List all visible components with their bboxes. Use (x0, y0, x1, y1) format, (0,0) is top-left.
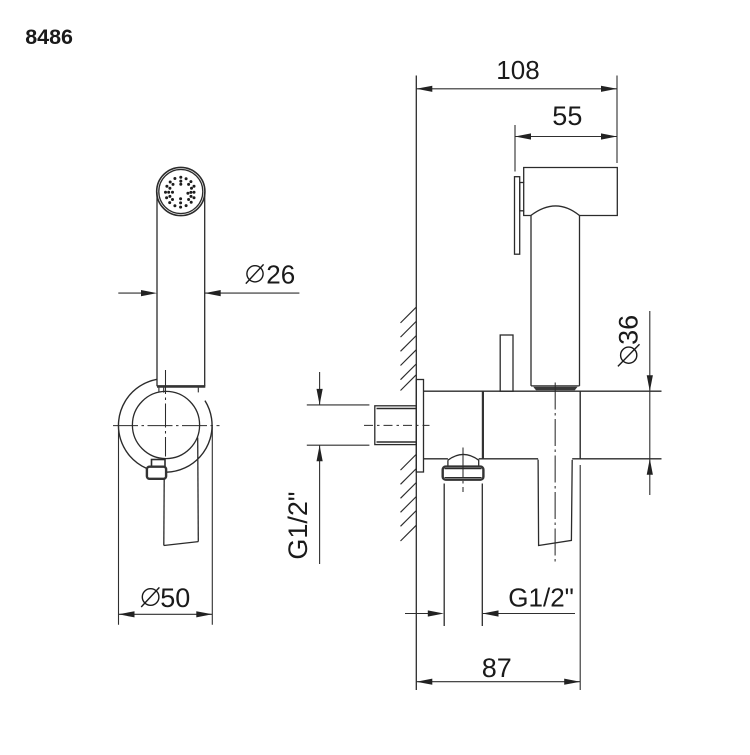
dimension 55 arrows (515, 133, 617, 139)
neck tick left a (158, 388, 160, 392)
dimension D26 label (246, 264, 264, 283)
handle right edge (side view) (579, 216, 581, 386)
dimension G12 left arrows (317, 389, 323, 461)
handle rim band (side view) (533, 387, 577, 391)
lower handle piece right edge (197, 438, 200, 542)
holder vertical centerline (165, 370, 167, 457)
dimension G12 left upper line (319, 372, 321, 405)
dimension 55 left extension line (514, 125, 516, 172)
dimension 108 line (416, 88, 617, 90)
dimension D50 arrows (119, 611, 213, 617)
spray face outer circle (157, 167, 205, 215)
dimension 87 right extension line (579, 465, 581, 690)
svg-text:26: 26 (266, 260, 295, 290)
dimension 55 line (515, 136, 617, 138)
dimension G12 bottom arrows (428, 610, 499, 616)
dimension 87 line (416, 681, 580, 683)
supply pipe centerline (364, 424, 430, 426)
outlet nut (443, 467, 484, 480)
svg-text:36: 36 (614, 315, 644, 345)
dimension D36 arrows (647, 375, 653, 475)
holder body top edge (424, 390, 662, 392)
spray nozzle dots (164, 176, 196, 209)
dimension D26 arrows (141, 290, 221, 296)
dimension G12 left lower line (319, 445, 321, 564)
outlet dome (448, 454, 479, 466)
dimension D26 left line (118, 292, 299, 294)
spray face plate (side view) (515, 177, 520, 255)
dimension 108 right extension line (616, 76, 618, 164)
handle bottom rim (front view) (157, 385, 205, 388)
outlet vertical centerline (462, 448, 464, 493)
holder body joint line left (482, 391, 484, 459)
handle left edge (front view) (156, 192, 158, 386)
svg-text:8486: 8486 (25, 25, 73, 49)
dimension D50 right extension line (211, 427, 213, 625)
dimension 87 arrows (416, 679, 580, 685)
holder body bottom edge (424, 458, 662, 460)
dimension 108 arrows (416, 86, 617, 92)
handle left edge (side view) (530, 216, 532, 386)
dimension G12 left extension lines (307, 404, 370, 406)
supply pipe inner bottom line (377, 441, 417, 443)
svg-text:55: 55 (552, 101, 582, 131)
svg-text:87: 87 (482, 653, 512, 683)
dimension D50 line (119, 613, 213, 615)
svg-text:G1/2": G1/2" (508, 583, 574, 613)
holder horizontal centerline (113, 425, 220, 427)
outlet pipe left edge (443, 484, 445, 627)
holder body joint line right (579, 391, 581, 459)
handle bottom edge (side view) (531, 385, 580, 387)
wall flange plate (416, 380, 423, 473)
dimension D50 label (141, 587, 159, 607)
handle vertical centerline (side view) (554, 383, 556, 563)
dimension D36 line (649, 311, 651, 495)
shower head body outline (524, 168, 618, 216)
neck tick left b (163, 388, 165, 393)
dimension G12 bottom left line (405, 613, 429, 615)
holder outer ring circle (118, 379, 212, 472)
handle right edge (front view) (204, 192, 206, 386)
holder inner ring circle (132, 391, 199, 458)
outlet nut bottom inner line (445, 477, 482, 479)
lower handle piece bottom edge (164, 542, 199, 546)
svg-text:50: 50 (160, 583, 190, 613)
wall line (415, 76, 417, 691)
shower head shoulder arc (531, 206, 580, 216)
wall hatching lower band (401, 454, 417, 541)
dimension D36 label (618, 344, 640, 366)
svg-text:G1/2": G1/2" (283, 491, 313, 559)
handle lower piece (side view) (538, 460, 572, 546)
spray face inner block (520, 183, 524, 211)
dimension G12 bottom right line (483, 613, 575, 615)
svg-text:108: 108 (496, 55, 539, 85)
outlet nut top inner line (445, 468, 482, 470)
clip body (147, 467, 166, 479)
wall hatching upper band (401, 307, 417, 390)
clip tab (152, 460, 166, 467)
supply pipe outline (375, 406, 417, 445)
supply pipe inner top line (377, 408, 417, 410)
outlet pipe right edge (481, 484, 483, 627)
lower handle piece left edge (163, 479, 165, 546)
locking knob (500, 335, 513, 391)
dimension D50 left extension line (118, 426, 120, 625)
neck tick right (197, 388, 199, 393)
spray face inner circle (159, 170, 203, 214)
